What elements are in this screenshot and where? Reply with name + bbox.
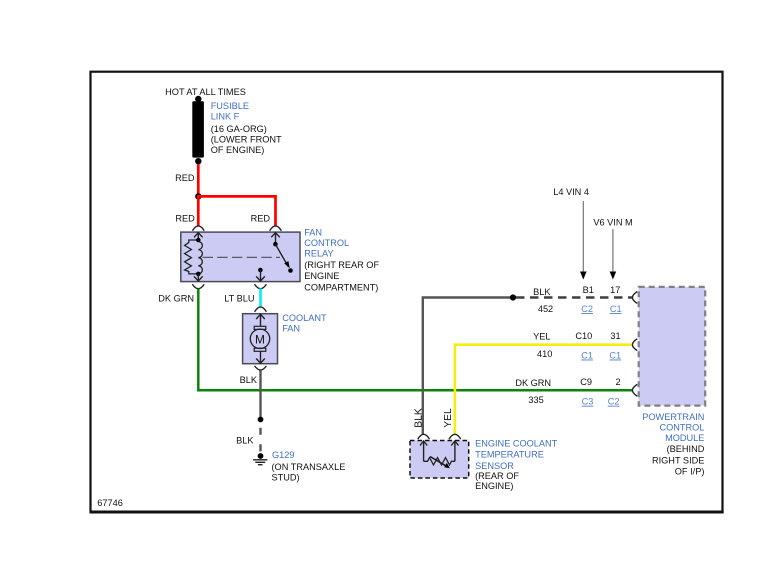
svg-text:410: 410	[537, 349, 552, 359]
border frame	[90, 72, 724, 512]
svg-text:BLK: BLK	[236, 435, 254, 445]
relay labels	[304, 227, 379, 292]
svg-text:G129: G129	[272, 450, 294, 460]
label L4 VIN 4 with arrow	[553, 187, 589, 279]
svg-text:(BEHIND: (BEHIND	[667, 444, 705, 454]
svg-text:RELAY: RELAY	[304, 249, 333, 259]
wire: BLK 452 from sensor to PCM (solid part)	[423, 298, 513, 435]
relay terminal cup (bottom left)	[192, 284, 204, 288]
relay coil pin arrow (bottom, down)	[194, 274, 203, 281]
sensor terminal cup (left)	[418, 434, 430, 439]
svg-text:TEMPERATURE: TEMPERATURE	[475, 450, 544, 460]
svg-text:POWERTRAIN: POWERTRAIN	[642, 412, 704, 422]
svg-text:LT BLU: LT BLU	[224, 294, 254, 304]
svg-text:OF I/P): OF I/P)	[675, 466, 705, 476]
svg-text:L4 VIN 4: L4 VIN 4	[553, 187, 589, 197]
label V6 VIN M with arrow	[593, 217, 632, 279]
wire: RED branch, down-left to relay coil and right-down to relay switch	[197, 196, 276, 226]
svg-text:YEL: YEL	[533, 332, 550, 342]
relay switch output contact and arrow (down)	[256, 268, 265, 281]
svg-text:67746: 67746	[97, 498, 123, 508]
relay terminal cup (top left)	[192, 226, 204, 231]
svg-text:17: 17	[610, 285, 620, 295]
junction dot on BLK ground wire	[258, 417, 264, 423]
relay pin arrow (top left, up)	[194, 233, 203, 240]
svg-text:COOLANT: COOLANT	[282, 313, 327, 323]
wire: DK GRN from relay down and right to PCM	[198, 289, 632, 391]
fan control relay box	[181, 232, 300, 282]
svg-text:RED: RED	[175, 173, 195, 183]
labels BLK 452 row	[533, 285, 621, 314]
svg-text:C9: C9	[580, 377, 592, 387]
fusible link labels	[211, 101, 282, 155]
svg-text:C1: C1	[581, 351, 593, 361]
coolant fan labels	[282, 313, 327, 334]
PCM terminal cup (YEL row)	[632, 339, 637, 351]
svg-text:FAN: FAN	[304, 227, 322, 237]
svg-text:OF ENGINE): OF ENGINE)	[211, 145, 265, 155]
wire: YEL 410 from sensor to PCM	[455, 345, 632, 435]
sensor terminal cup (right)	[449, 434, 461, 439]
ground G129 symbol	[253, 453, 267, 465]
svg-text:C2: C2	[581, 304, 593, 314]
svg-text:(16 GA-ORG): (16 GA-ORG)	[211, 124, 267, 134]
svg-text:DK GRN: DK GRN	[158, 294, 194, 304]
svg-text:ENGINE): ENGINE)	[475, 481, 513, 491]
svg-text:YEL: YEL	[443, 408, 454, 428]
relay coil: zigzag resistor + arc coil between pins	[185, 240, 203, 274]
svg-text:RED: RED	[251, 214, 271, 224]
wire: BLK from fan down to junction	[259, 370, 261, 419]
svg-text:B1: B1	[583, 285, 594, 295]
svg-text:(RIGHT REAR OF: (RIGHT REAR OF	[304, 260, 379, 270]
relay terminal cup (bottom right)	[255, 284, 267, 288]
svg-text:SENSOR: SENSOR	[475, 461, 514, 471]
fan pin arrow (bottom, down)	[256, 352, 265, 364]
wire: BLK 452 dashed part to PCM	[516, 296, 632, 298]
svg-text:31: 31	[610, 331, 620, 341]
ground labels	[272, 450, 346, 482]
svg-text:STUD): STUD)	[272, 472, 300, 482]
svg-text:C1: C1	[609, 351, 621, 361]
sensor labels	[475, 438, 558, 491]
svg-text:COMPARTMENT): COMPARTMENT)	[304, 282, 378, 292]
svg-text:452: 452	[538, 304, 553, 314]
svg-text:BLK: BLK	[414, 408, 425, 428]
junction dot on BLK 452	[510, 294, 516, 300]
fan pin arrow (top, up)	[256, 314, 265, 326]
svg-text:LINK F: LINK F	[211, 111, 240, 121]
svg-text:335: 335	[528, 395, 543, 405]
fan motor symbol	[250, 326, 269, 351]
engine coolant temperature sensor box	[410, 441, 469, 479]
relay internal dashed link	[203, 256, 281, 258]
PCM terminal cup (BLK row)	[632, 292, 637, 304]
svg-text:M: M	[255, 332, 265, 346]
svg-text:C10: C10	[575, 331, 592, 341]
junction node dot	[195, 193, 201, 199]
sensor pin arrow (right, up)	[451, 441, 458, 461]
wire: LT BLU relay to fan	[259, 288, 262, 307]
svg-text:(REAR OF: (REAR OF	[475, 471, 519, 481]
svg-text:BLK: BLK	[533, 287, 551, 297]
svg-text:CONTROL: CONTROL	[659, 423, 704, 433]
svg-text:2: 2	[615, 377, 620, 387]
labels DK GRN 335 row	[515, 377, 620, 407]
svg-text:HOT AT ALL TIMES: HOT AT ALL TIMES	[165, 87, 246, 97]
svg-text:RED: RED	[175, 214, 195, 224]
fusible link F (black bar with end dots)	[192, 96, 204, 165]
svg-text:ENGINE: ENGINE	[304, 271, 339, 281]
svg-text:C2: C2	[608, 397, 620, 407]
PCM terminal cup (DK GRN row)	[632, 384, 637, 396]
thermistor zigzag	[424, 458, 455, 465]
svg-text:(LOWER FRONT: (LOWER FRONT	[211, 135, 282, 145]
svg-text:C3: C3	[582, 397, 594, 407]
relay switch: common dot, arm with arrowhead, contact dot	[273, 242, 293, 273]
sensor pin arrow (left, up)	[420, 441, 427, 461]
svg-text:ENGINE COOLANT: ENGINE COOLANT	[475, 438, 558, 448]
coolant fan box	[243, 314, 278, 364]
svg-text:FUSIBLE: FUSIBLE	[211, 101, 249, 111]
svg-text:RIGHT SIDE: RIGHT SIDE	[652, 455, 704, 465]
coolant fan terminal cup (bottom)	[255, 366, 267, 370]
relay terminal cup (top right)	[270, 226, 282, 231]
svg-text:FAN: FAN	[282, 323, 300, 333]
powertrain control module box	[639, 287, 706, 406]
wire: RED from fusible link down to junction	[197, 164, 200, 196]
svg-text:C1: C1	[610, 304, 622, 314]
PCM labels	[642, 412, 704, 477]
svg-text:BLK: BLK	[240, 375, 258, 385]
svg-text:(ON TRANSAXLE: (ON TRANSAXLE	[272, 462, 346, 472]
svg-text:CONTROL: CONTROL	[304, 238, 349, 248]
wire: BLK dashed segment to ground	[259, 428, 261, 455]
labels YEL 410 row	[533, 331, 621, 361]
svg-text:V6 VIN M: V6 VIN M	[593, 217, 632, 227]
thermistor diagonal arrow	[430, 457, 450, 469]
svg-text:MODULE: MODULE	[665, 433, 704, 443]
svg-text:DK GRN: DK GRN	[515, 378, 551, 388]
relay pin arrow (top right, up)	[271, 233, 280, 244]
coolant fan terminal cup (top)	[255, 307, 267, 312]
